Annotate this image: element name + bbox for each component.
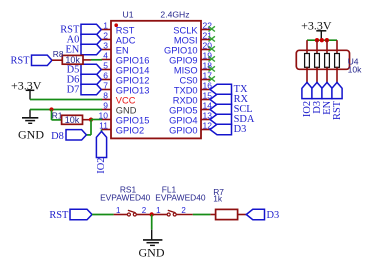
IC U1 pin-1 marker dot [114,23,118,27]
no-connect X mark on pin 21 [209,36,215,41]
port EN (downward, U4 pull-up) [322,82,333,114]
svg-text:RST: RST [116,26,135,36]
svg-text:MOSI: MOSI [174,36,198,46]
U4 top lead 2 [316,40,318,53]
port D3 (bottom) [246,209,279,221]
svg-text:IO2: IO2 [96,158,107,174]
resistor R8 body [62,55,83,64]
svg-text:SCLK: SCLK [173,26,198,36]
IC U1 left pin 2 (ADC) stub, number and name [102,30,136,45]
svg-text:GND: GND [18,127,44,141]
port D3 on pin 12 [210,124,246,135]
svg-text:D3: D3 [234,124,247,135]
svg-text:GPIO9: GPIO9 [169,56,197,66]
junction node U4 pin b [315,38,319,42]
IC U1 right pin 12 (GPIO0) stub, number and name [169,120,212,135]
R1 right lead [83,119,92,121]
svg-text:RXD0: RXD0 [173,96,198,106]
IC U1 right pin 21 (MOSI) stub, number and name [174,30,212,45]
IC U1 right pin 15 (RXD0) stub, number and name [173,90,212,105]
switch RS1 (EVPAWED40) [114,206,150,216]
wire pin 11 to IO2 port [101,130,103,132]
R8 right lead [83,59,91,61]
svg-text:1: 1 [156,206,161,215]
U4 bottom lead 3 [326,67,328,82]
port SDA on pin 13 [210,114,255,125]
junction node R1/GPIO15/D8 [89,118,93,122]
wire +3.3V bus over U4 [307,39,337,41]
IC U1 left pin 8 (VCC) stub, number and name [102,90,136,105]
port SCL on pin 14 [210,104,253,115]
U4 resistor element 3 [325,54,330,68]
wire to R1 left lead [52,119,62,121]
wire RST port to R8 [52,59,62,61]
resistor R1 body [62,115,83,124]
wire junction down to D8 net [90,120,92,135]
svg-text:U1: U1 [123,9,134,19]
junction node on GND wire (R1 tap) [49,107,53,111]
svg-text:10k: 10k [348,65,363,75]
R7 left lead [210,214,215,216]
svg-text:RST: RST [332,100,343,120]
U4 resistor element 1 [305,54,310,68]
svg-text:TXD0: TXD0 [174,86,198,96]
svg-text:GPIO5: GPIO5 [169,106,197,116]
svg-text:GPIO0: GPIO0 [169,126,197,136]
svg-text:6: 6 [103,70,108,80]
svg-text:D7: D7 [67,85,80,96]
wire +3.3V to pin 8 VCC [30,99,102,101]
IC U1 left pin 11 (GPIO2) stub, number and name [99,120,144,135]
IC U1 left pin 1 (RST) stub, number and name [102,20,135,35]
U4 top lead 1 [306,40,308,53]
svg-text:7: 7 [103,80,108,90]
IC U1 left pin 9 (GND) stub, number and name [102,100,137,115]
U4 resistor element 4 [335,54,340,68]
ground GND symbol (left) [18,110,44,142]
U4 resistor element 2 [315,54,320,68]
IC U1 right pin 17 (CS0) stub, number and name [180,70,213,85]
svg-text:2: 2 [142,206,147,215]
svg-text:8: 8 [103,90,108,100]
port D8 [51,130,86,142]
U4 top lead 3 [326,40,328,53]
ground GND symbol (bottom) [139,215,165,260]
junction node U4 pin c [325,38,329,42]
svg-text:MISO: MISO [174,66,198,76]
IC U1 right pin 20 (GPIO10) stub, number and name [164,40,212,55]
resistor network U4 outline [296,50,349,69]
U4 bottom lead 4 [336,67,338,82]
svg-text:GPIO13: GPIO13 [116,86,150,96]
U4 bottom lead 1 [306,67,308,82]
no-connect X mark on pin 17 [209,76,215,81]
port RX on pin 15 [210,94,249,105]
svg-text:R8: R8 [53,49,64,59]
switch FL1 (EVPAWED40) [154,206,193,216]
port A0 to pin 2 [67,34,102,45]
IC U1 left pin 4 (GPIO16) stub, number and name [102,50,150,65]
svg-text:5: 5 [103,60,108,70]
svg-text:GPIO14: GPIO14 [116,66,150,76]
power +3.3V symbol (right) [301,18,332,40]
svg-text:GPIO4: GPIO4 [169,116,197,126]
IC U1 right pin 14 (GPIO5) stub, number and name [169,100,212,115]
svg-text:1k: 1k [213,193,223,203]
wire R8 to pin 4 [91,59,102,61]
no-connect X mark on pin 19 [209,56,215,61]
svg-text:9: 9 [103,100,108,110]
svg-text:EVPAWED40: EVPAWED40 [155,193,206,203]
port D6 to pin 6 [67,74,102,85]
IC U1 body rectangle [111,21,201,139]
svg-text:GPIO16: GPIO16 [116,56,150,66]
svg-text:4: 4 [103,50,108,60]
svg-text:GND: GND [116,106,137,116]
svg-text:EN: EN [65,45,79,56]
port D7 to pin 7 [67,84,102,95]
svg-text:2: 2 [181,206,186,215]
IC U1 left pin 10 (GPIO15) stub, number and name [99,110,150,125]
no-connect X mark on pin 20 [209,46,215,51]
U4 top lead 4 [336,40,338,53]
svg-text:CS0: CS0 [180,76,198,86]
IC U1 left pin 5 (GPIO14) stub, number and name [102,60,150,75]
wire junction down to R1 [51,110,53,120]
svg-text:GPIO15: GPIO15 [116,116,150,126]
svg-text:3: 3 [103,40,108,50]
svg-text:D3: D3 [267,210,280,221]
IC U1 right pin 13 (GPIO4) stub, number and name [169,110,212,125]
port TX on pin 16 [210,84,248,95]
svg-text:RST: RST [49,210,69,221]
no-connect X mark on pin 18 [209,66,215,71]
svg-text:10k: 10k [65,115,80,125]
port D5 to pin 5 [67,64,102,75]
power +3.3V symbol (left) [11,78,42,99]
resistor R7 body [216,209,238,219]
port RST to pin 1 [60,24,101,35]
wire FL1 pin 2 to R7 [193,214,211,216]
IC U1 right pin 16 (TXD0) stub, number and name [174,80,212,95]
port RST (bottom) [49,209,92,221]
U4 bottom lead 2 [316,67,318,82]
IC U1 right pin 22 (SCLK) stub, number and name [173,20,212,35]
wire to D8 port [86,134,91,136]
svg-text:1: 1 [116,206,121,215]
IC U1 left pin 7 (GPIO13) stub, number and name [102,80,150,95]
IC U1 right pin 18 (MISO) stub, number and name [174,60,212,75]
IC U1 left pin 3 (EN) stub, number and name [102,40,129,55]
wire junction to pin 10 [91,119,102,121]
svg-text:GND: GND [139,245,165,259]
svg-text:D8: D8 [51,131,64,142]
junction node RS1/FL1/GND [150,212,154,216]
IC U1 left pin 6 (GPIO12) stub, number and name [102,70,150,85]
svg-text:RST: RST [10,56,30,67]
svg-text:EVPAWED40: EVPAWED40 [100,193,151,203]
port D3 (downward, U4 pull-up) [312,82,323,113]
svg-text:2: 2 [103,30,108,40]
svg-text:10k: 10k [65,55,80,65]
svg-text:VCC: VCC [116,96,136,106]
svg-text:GPIO2: GPIO2 [116,126,144,136]
port RST (downward, U4 pull-up) [332,82,343,120]
R7 right lead [238,214,247,216]
wire RST port to RS1 pin 1 [92,214,114,216]
svg-text:GPIO10: GPIO10 [164,46,198,56]
svg-text:11: 11 [99,120,108,130]
wire GND to pin 9 [30,109,102,111]
svg-text:ADC: ADC [116,36,136,46]
port IO2 (downward) with vertical label [96,131,107,173]
no-connect X mark on pin 22 [209,26,215,31]
port EN to pin 3 [65,44,101,55]
svg-text:EN: EN [116,46,129,56]
svg-text:1: 1 [103,20,108,30]
IC U1 right pin 19 (GPIO9) stub, number and name [169,50,212,65]
junction node +3.3V stem [320,38,324,42]
port RST (to R8) [10,55,52,66]
svg-text:GPIO12: GPIO12 [116,76,150,86]
port IO2 (downward, U4 pull-up) [302,82,313,117]
svg-text:2.4GHz: 2.4GHz [160,9,189,19]
